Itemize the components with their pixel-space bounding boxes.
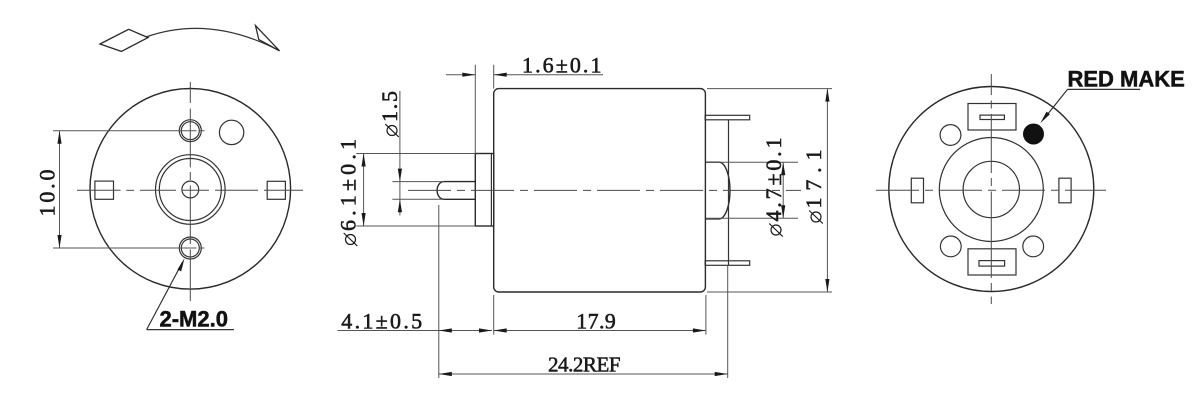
screw hole bottom inner — [181, 239, 199, 257]
main horizontal centerline — [408, 189, 801, 191]
dim phi17.1 extension lines — [707, 89, 832, 292]
rotation arc — [146, 28, 280, 50]
dim 4.1 line — [338, 328, 493, 332]
rotation arrowhead — [256, 26, 280, 51]
dim 24.2REF line — [439, 372, 728, 376]
left view outer circle — [90, 89, 291, 290]
bottom hole extension line — [53, 247, 205, 249]
rear vent hole lower right — [1023, 236, 1044, 257]
motor body — [494, 89, 706, 292]
horizontal centerline — [77, 189, 303, 191]
dim 1.6 line right part — [494, 73, 603, 77]
shaft extension lines — [392, 182, 444, 200]
vent hole top right — [219, 120, 243, 144]
svg-text:24.2REF: 24.2REF — [548, 353, 621, 377]
left mounting square — [95, 181, 114, 199]
bushing step line — [490, 154, 492, 227]
svg-text:2-M2.0: 2-M2.0 — [160, 307, 228, 332]
extension line cap face bottom — [727, 265, 729, 378]
red mark dot — [1023, 124, 1044, 145]
top hole extension line — [53, 130, 205, 132]
dim phi4.7 extension lines — [706, 162, 798, 218]
extension line body right bottom — [705, 295, 707, 335]
rear inner circle — [963, 161, 1019, 217]
right mounting square — [267, 181, 285, 199]
dim phi6.1 text — [336, 139, 361, 246]
dimension 10.0 line — [57, 131, 61, 248]
dim phi17.1 text — [801, 150, 826, 224]
dim phi4.7 text — [761, 138, 786, 237]
screw hole bottom outer — [179, 237, 201, 259]
dim 17.9 line — [494, 328, 706, 332]
dim phi1.5 text — [377, 91, 402, 137]
terminal top — [705, 115, 750, 120]
rear right tab — [1059, 178, 1071, 203]
front bushing — [475, 154, 493, 227]
rear outer circle — [889, 87, 1094, 292]
dim phi6.1 line — [362, 154, 366, 227]
rear middle circle — [939, 138, 1043, 242]
extension line body left bottom — [493, 295, 495, 335]
rear vertical centerline — [990, 74, 992, 304]
rear left tab — [911, 178, 923, 203]
screw hole top outer — [179, 120, 201, 142]
svg-text:10.0: 10.0 — [35, 170, 60, 217]
svg-text:1.5: 1.5 — [377, 91, 402, 122]
svg-text:17.9: 17.9 — [576, 308, 616, 333]
svg-text:RED MAKE: RED MAKE — [1068, 66, 1185, 91]
rear top terminal slot — [980, 115, 1004, 119]
rotation diamond — [100, 29, 148, 51]
dim 1.6 line left arrow — [446, 73, 475, 77]
extension line bushing face — [474, 65, 476, 154]
rear horizontal centerline — [876, 189, 1106, 191]
shaft circle — [182, 181, 199, 198]
dim phi17.1 line — [825, 89, 829, 292]
dim phi1.5 line — [398, 91, 402, 215]
shaft — [437, 182, 475, 200]
boss inner circle — [159, 159, 221, 221]
vertical centerline — [189, 82, 191, 301]
label RED MAKE leader — [1040, 89, 1140, 123]
rear vent hole upper left — [940, 125, 961, 146]
extension line body face — [493, 65, 495, 89]
extension line shaft tip — [438, 205, 440, 378]
rear top terminal housing — [968, 104, 1016, 131]
rear bottom terminal slot — [979, 261, 1005, 267]
rear bottom terminal housing — [968, 249, 1016, 275]
dim phi4.7 line — [781, 162, 785, 218]
terminal bottom — [705, 261, 750, 266]
screw hole top inner — [181, 122, 199, 140]
label 2-M2.0 leader — [147, 258, 234, 329]
boss outer circle — [156, 155, 226, 225]
rear cap face line — [728, 120, 730, 266]
rear vent hole lower left — [940, 236, 961, 257]
bushing extension lines — [356, 154, 475, 227]
rear boss — [705, 162, 730, 219]
